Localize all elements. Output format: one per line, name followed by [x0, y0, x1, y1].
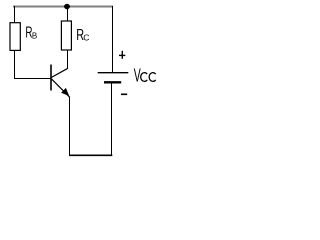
battery V_CC negative plate (short thick)	[104, 81, 121, 83]
wire from junction dot down to R_C top	[67, 7, 69, 22]
wire top rail from R_B top to Vcc+ corner	[14, 6, 113, 8]
label Vcc	[134, 66, 156, 87]
wire top rail down to battery + plate	[112, 6, 114, 72]
transistor Q1 collector lead diagonal	[51, 69, 67, 78]
resistor R_C body	[61, 21, 71, 50]
wire from top rail down to R_B	[14, 6, 16, 23]
wire battery - down to bottom rail	[111, 82, 113, 155]
transistor Q1 emitter arrowhead	[61, 88, 69, 96]
wire emitter down to bottom rail	[69, 97, 71, 156]
wire collector up to R_C	[67, 50, 69, 70]
svg-text:V: V	[134, 66, 141, 87]
transistor Q1 emitter lead diagonal	[52, 79, 70, 97]
resistor R_B body	[10, 23, 20, 51]
svg-text:B: B	[32, 32, 37, 41]
svg-text:C: C	[83, 33, 89, 43]
transistor Q1 base bar	[50, 65, 52, 91]
label R_B	[25, 23, 37, 41]
wire bottom rail	[70, 154, 113, 156]
label R_C	[76, 26, 89, 44]
label - polarity	[121, 94, 127, 96]
battery V_CC positive plate (long)	[98, 72, 129, 74]
wire from R_B down to base corner	[14, 50, 16, 79]
node junction dot at top of R_C	[64, 4, 70, 10]
wire base lead to transistor Q1	[14, 78, 51, 80]
label + polarity	[119, 51, 125, 59]
